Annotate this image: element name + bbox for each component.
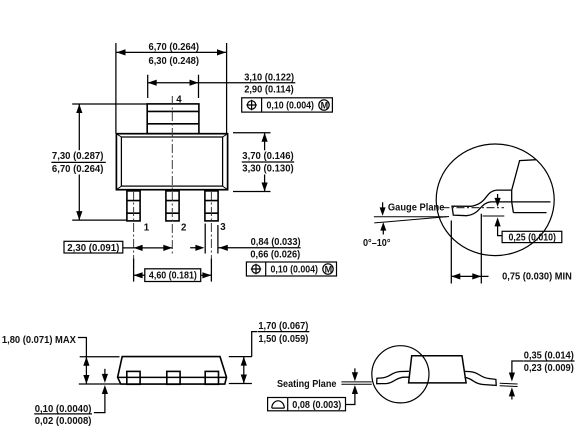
svg-text:2: 2 [181, 223, 186, 234]
svg-text:3,70 (0.146): 3,70 (0.146) [242, 151, 293, 162]
center line pkg / lead 2 [171, 96, 173, 256]
lead 2 [166, 191, 179, 221]
svg-text:6,70 (0.264): 6,70 (0.264) [149, 42, 200, 53]
svg-text:1,70 (0.067): 1,70 (0.067) [258, 321, 308, 332]
dimension 3,10/2,90 tab width [148, 75, 296, 98]
flatness tolerance frame [268, 398, 346, 411]
dimension 3,70/3,30 body height [233, 133, 271, 192]
svg-text:0,84 (0.033): 0,84 (0.033) [251, 237, 301, 248]
gauge-plane detail circle [436, 144, 554, 256]
svg-text:1,50 (0.059): 1,50 (0.059) [258, 334, 308, 345]
dimension 6,70/6,30 width [116, 43, 227, 134]
gauge plane centerline [442, 207, 505, 209]
side view lead stub 2 [167, 371, 180, 384]
svg-text:2,30 (0.091): 2,30 (0.091) [67, 243, 119, 254]
front view body outline [116, 134, 227, 190]
svg-text:Gauge Plane: Gauge Plane [388, 202, 445, 213]
svg-text:0,02 (0.0008): 0,02 (0.0008) [35, 416, 92, 427]
lead 3 [205, 191, 218, 221]
svg-text:7,30 (0.287): 7,30 (0.287) [52, 151, 104, 162]
svg-text:0,10 (0.004): 0,10 (0.004) [267, 101, 315, 112]
svg-text:0,23 (0.009): 0,23 (0.009) [524, 363, 574, 374]
dimension 7,30/6,70 height [72, 104, 147, 220]
lead detail left lead [377, 371, 410, 383]
svg-text:0,08 (0.003): 0,08 (0.003) [292, 400, 341, 411]
svg-text:1,80 (0.071) MAX: 1,80 (0.071) MAX [2, 335, 77, 346]
lead detail circle [372, 346, 429, 403]
dimension 2,30 pitch (boxed) [64, 241, 123, 253]
lead 1 [127, 191, 140, 221]
center line lead 1 [133, 191, 135, 283]
svg-text:4,60 (0.181): 4,60 (0.181) [149, 270, 197, 281]
side view lead stub 3 [205, 371, 218, 384]
gauge detail lead [452, 190, 512, 216]
lead detail right lead [465, 371, 497, 385]
seating reference line [374, 216, 447, 218]
svg-text:0,25 (0.010): 0,25 (0.010) [509, 233, 557, 244]
dimension 0,10/0,02 standoff [104, 369, 106, 375]
position tolerance frame (tab) [242, 98, 333, 112]
svg-text:3,30 (0.130): 3,30 (0.130) [242, 164, 293, 175]
svg-text:M: M [325, 264, 333, 274]
svg-text:2,90 (0.114): 2,90 (0.114) [244, 84, 294, 95]
svg-text:0,10 (0.004): 0,10 (0.004) [271, 265, 319, 276]
svg-text:3: 3 [220, 222, 226, 233]
position tolerance frame (leads) [246, 262, 336, 276]
svg-text:6,70 (0.264): 6,70 (0.264) [52, 164, 104, 175]
svg-text:3,10 (0.122): 3,10 (0.122) [244, 73, 294, 84]
gauge detail body [512, 160, 551, 213]
svg-text:Seating Plane: Seating Plane [277, 379, 337, 390]
tab (pin 4) [147, 104, 199, 134]
dimension 4,60 span (boxed) [134, 259, 212, 282]
dimension 0,25 gauge offset [497, 194, 499, 199]
svg-text:0,35 (0.014): 0,35 (0.014) [524, 350, 574, 361]
side view body [118, 357, 227, 385]
svg-text:0,66 (0.026): 0,66 (0.026) [250, 250, 300, 261]
angle arrows [382, 202, 384, 210]
svg-text:1: 1 [144, 223, 150, 234]
svg-text:4: 4 [176, 94, 182, 105]
svg-text:0°–10°: 0°–10° [363, 238, 391, 249]
seating plane lines [341, 382, 371, 384]
svg-text:6,30 (0.248): 6,30 (0.248) [149, 56, 200, 67]
svg-text:0,10 (0.0040): 0,10 (0.0040) [35, 404, 92, 415]
side view lead stub 1 [127, 371, 140, 384]
lead detail body [409, 356, 467, 383]
center line lead 3 [210, 191, 212, 283]
seating plane arrows [354, 368, 356, 373]
dimension 0,75 MIN foot length [451, 214, 488, 284]
dimension 0,84/0,66 lead width [190, 224, 300, 254]
svg-text:M: M [321, 100, 329, 110]
svg-text:0,75 (0.030) MIN: 0,75 (0.030) MIN [502, 271, 572, 282]
0-10 degree tilted line [374, 217, 449, 223]
dimension 0,35/0,23 lead thickness [500, 383, 518, 386]
